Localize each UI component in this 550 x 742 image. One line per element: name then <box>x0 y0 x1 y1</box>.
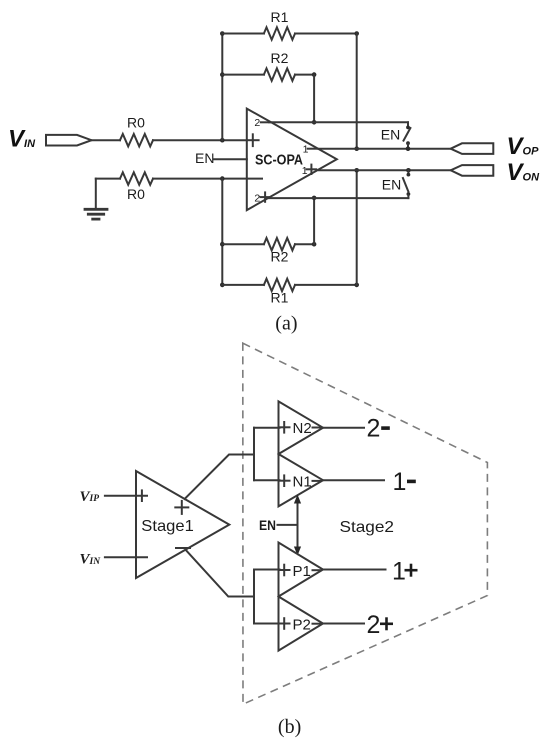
node R2 drop on 2- line <box>312 120 317 125</box>
wire R0 to op-amp positive input <box>153 139 247 141</box>
pin label 2+ (output 2+) <box>254 192 269 204</box>
svg-text:R0: R0 <box>127 115 145 131</box>
op-amp U1 SC-OPA <box>247 109 337 211</box>
wire riser R2 bottom to 2+ line <box>313 198 315 244</box>
node R1 top-right junction <box>354 31 359 36</box>
P2 minus marker <box>313 623 322 625</box>
N1 plus marker <box>279 475 290 486</box>
svg-text:2: 2 <box>254 117 260 129</box>
svg-text:EN: EN <box>259 517 276 533</box>
wire P input bus <box>253 570 255 624</box>
node R2 bottom-right junction <box>312 242 317 247</box>
wire R1 to right drop <box>295 33 357 35</box>
P1 plus marker <box>279 565 290 576</box>
pin label 1+ (output 1+) <box>302 165 316 177</box>
buffer N1 <box>279 454 324 506</box>
P1 minus marker <box>313 569 322 571</box>
node R2 bottom-left junction <box>220 242 225 247</box>
svg-text:Stage1: Stage1 <box>141 518 194 535</box>
svg-text:EN: EN <box>195 150 214 166</box>
wire R2 to right drop <box>295 74 314 76</box>
node R1 drop on 1- line <box>354 146 359 151</box>
svg-text:(b): (b) <box>278 716 301 738</box>
svg-text:2: 2 <box>367 415 381 443</box>
node R2 riser on 2+ line <box>312 196 317 201</box>
wire N input bus <box>253 428 255 481</box>
wire R0 to op-amp negative input <box>153 178 262 180</box>
wire output 2+ line <box>269 197 409 199</box>
svg-text:N2: N2 <box>293 420 312 437</box>
N2 minus marker <box>313 427 322 429</box>
svg-text:Stage2: Stage2 <box>340 519 395 536</box>
net label 2+ <box>367 611 394 639</box>
svg-text:R2: R2 <box>271 50 289 66</box>
wire drop R1 right to output 1- line <box>356 34 358 149</box>
N2 plus marker <box>279 422 290 433</box>
wire output 1+ line <box>319 169 451 171</box>
wire stub to P2 input <box>254 623 280 625</box>
net label 1- <box>393 468 416 496</box>
ground <box>85 179 107 220</box>
svg-text:N1: N1 <box>293 474 312 491</box>
node R1 top-left junction <box>220 31 225 36</box>
resistor R2 (top feedback) <box>264 68 295 80</box>
svg-text:VIN: VIN <box>80 552 102 568</box>
buffer P1 <box>279 543 324 597</box>
output port connector V_ON <box>451 165 494 176</box>
svg-text:VIP: VIP <box>80 489 100 505</box>
wire R1 bottom to riser <box>295 284 357 286</box>
resistor R0 (top input) <box>120 134 153 146</box>
resistor R1 (bottom feedback) <box>264 279 295 291</box>
svg-text:R1: R1 <box>271 9 289 25</box>
svg-text:1: 1 <box>393 468 407 496</box>
svg-text:1: 1 <box>392 557 406 585</box>
net label 1+ <box>392 557 418 585</box>
amplifier Stage1 <box>136 471 229 578</box>
svg-text:EN: EN <box>382 177 401 193</box>
svg-text:VON: VON <box>507 159 541 186</box>
input port connector V_IN <box>46 135 92 146</box>
wire stub to P1 input <box>254 569 280 571</box>
N1 minus marker <box>313 480 322 482</box>
svg-text:VIN: VIN <box>8 125 36 152</box>
stage1 plus output marker <box>175 501 188 514</box>
wire stub to N1 input <box>254 479 280 481</box>
node R1 riser on 1+ line <box>354 168 359 173</box>
svg-text:P2: P2 <box>293 616 311 633</box>
stage2 boundary (dashed) <box>243 343 488 704</box>
svg-text:2: 2 <box>254 193 260 205</box>
net label 2- <box>367 415 390 443</box>
wire stage1 positive out to N bus <box>185 455 254 500</box>
pin label 1- (output 1-) <box>303 144 317 156</box>
buffer N2 <box>279 401 324 454</box>
output port connector V_OP <box>451 143 494 154</box>
resistor R0 (bottom input) <box>120 172 153 184</box>
node 1+ line to bottom switch <box>406 168 411 173</box>
svg-text:R0: R0 <box>127 186 145 202</box>
wire EN to op-amp <box>214 158 247 160</box>
svg-text:EN: EN <box>381 126 400 142</box>
svg-text:1: 1 <box>302 165 308 177</box>
stage1 plus input marker <box>141 490 143 501</box>
wire dropper input-minus to bottom R1 <box>221 179 223 285</box>
wire V_IN input <box>105 556 147 558</box>
svg-text:(a): (a) <box>275 313 297 335</box>
wire riser R1 bottom to 1+ line <box>356 170 358 285</box>
node R2 top-left junction <box>220 72 225 77</box>
svg-text:SC-OPA: SC-OPA <box>255 152 303 169</box>
node input-minus junction <box>220 176 225 181</box>
svg-text:2: 2 <box>367 611 381 639</box>
node switch top on 1- line <box>406 146 411 151</box>
wire stub to N2 input <box>254 427 280 429</box>
op-amp plus input marker <box>247 134 259 146</box>
wire to R2 bottom <box>222 243 264 245</box>
wire to R2 top <box>222 74 264 76</box>
node input-plus junction <box>220 138 225 143</box>
wire V_IP input <box>105 495 147 497</box>
wire R2 bottom to riser <box>295 243 314 245</box>
wire riser input node to R1/R2 <box>221 34 223 141</box>
wire drop R2 right to output 2- line <box>313 75 315 123</box>
switch S1 (EN, top) <box>404 122 411 148</box>
wire to R1 bottom <box>222 284 264 286</box>
resistor R2 (bottom feedback) <box>264 238 295 250</box>
wire output 1- line <box>318 148 451 150</box>
pin label 2- (output 2-) <box>254 117 270 129</box>
wire EN to arrow <box>278 524 298 526</box>
wire N2 output <box>323 427 364 429</box>
wire output 2- line <box>269 121 408 123</box>
resistor R1 (top feedback) <box>264 27 295 39</box>
buffer P2 <box>279 597 324 651</box>
svg-text:R1: R1 <box>271 290 289 306</box>
node R1 bottom-right junction <box>354 283 359 288</box>
wire to R1 top <box>222 33 264 35</box>
switch S2 (EN, bottom) <box>403 170 410 198</box>
wire N1 output <box>323 479 384 481</box>
wire stage1 negative out to P bus <box>186 550 255 597</box>
wire V_IN pin to R0 <box>92 139 121 141</box>
wire P2 output <box>323 623 364 625</box>
svg-text:P1: P1 <box>293 563 311 580</box>
svg-text:R2: R2 <box>271 249 289 265</box>
EN select arrow (double-headed) <box>294 495 301 556</box>
wire P1 output <box>323 569 386 571</box>
node R2 top-right junction <box>312 72 317 77</box>
stage1 minus output marker <box>176 547 190 549</box>
node R1 bottom-left junction <box>220 283 225 288</box>
P2 plus marker <box>279 618 290 629</box>
wire ground to R0 bottom <box>96 178 120 180</box>
svg-text:VOP: VOP <box>507 133 540 160</box>
